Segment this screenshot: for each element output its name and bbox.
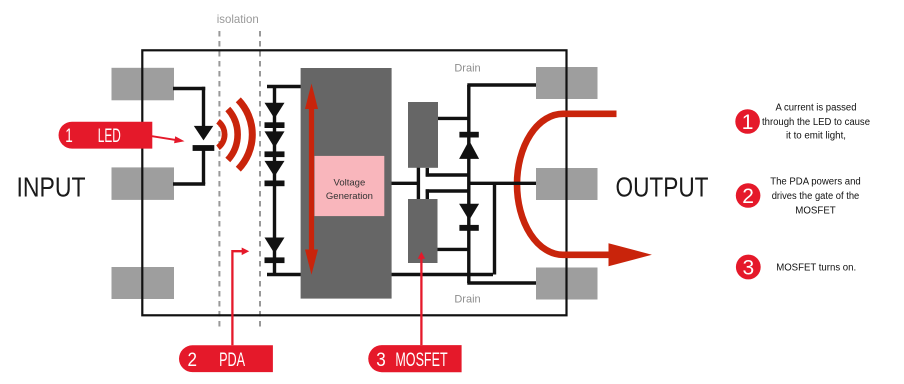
wire down to LED D1	[202, 87, 205, 130]
svg-text:3: 3	[742, 257, 754, 280]
wire PDA string vertical	[273, 85, 276, 275]
photodiode D2	[265, 103, 285, 119]
svg-text:MOSFET: MOSFET	[395, 350, 448, 371]
gate line of Q1/Q2	[417, 167, 420, 200]
svg-text:OUTPUT: OUTPUT	[616, 171, 709, 202]
wire source node to pin 5	[469, 182, 536, 185]
wire Q2 drain to rail	[438, 248, 469, 251]
svg-text:2: 2	[742, 185, 754, 208]
svg-text:INPUT: INPUT	[17, 171, 86, 202]
wire source node drop to PDA cathode wire	[493, 183, 496, 274]
svg-text:A current is passed: A current is passed	[776, 103, 857, 114]
channel plate upper segment (Q1)	[426, 168, 429, 177]
pointer arrow to photodiode array	[232, 251, 242, 345]
wire Q2 source to diode rail	[426, 189, 469, 192]
svg-text:Generation: Generation	[326, 191, 373, 202]
LED D1 cathode bar	[193, 145, 215, 151]
isolation boundary dashed line left	[218, 31, 220, 330]
photodiode D5	[265, 238, 285, 254]
pin 2 (LED cathode)	[112, 167, 175, 200]
wire rail to pin 4	[467, 281, 536, 284]
voltage generation block U1	[301, 68, 392, 299]
svg-text:it to emit light,: it to emit light,	[786, 131, 846, 142]
light emission arc small	[218, 121, 225, 147]
svg-text:isolation: isolation	[217, 12, 259, 26]
wire Q1 source to diode rail	[426, 173, 469, 176]
MOSFET Q1	[408, 102, 438, 168]
MOSFET Q2	[408, 199, 438, 263]
wire rail to pin 6	[467, 83, 536, 86]
body diode D6 (Q1, pointing up)	[459, 132, 478, 138]
pin 1 (LED anode)	[112, 68, 175, 101]
svg-text:drives the gate of the: drives the gate of the	[772, 191, 860, 202]
wire LED D1 cathode down	[202, 150, 205, 184]
svg-text:Drain: Drain	[454, 63, 480, 75]
pointer arrow to MOSFET Q2	[420, 257, 422, 345]
pin 4 (Drain, bottom output)	[536, 268, 598, 300]
callout label 2 PDA	[179, 345, 273, 372]
wire PDA anode into voltage generation block	[267, 85, 302, 88]
svg-text:2: 2	[188, 350, 198, 371]
legend step 3 circle	[736, 255, 761, 280]
LED D1 triangle	[194, 126, 214, 140]
svg-text:MOSFET turns on.: MOSFET turns on.	[776, 263, 856, 274]
pin 3 (NC)	[112, 267, 175, 299]
callout label 1 LED	[59, 122, 153, 149]
svg-text:1: 1	[742, 111, 754, 134]
photodiode D4	[265, 161, 285, 177]
svg-text:LED: LED	[98, 126, 121, 147]
svg-text:through the LED to cause: through the LED to cause	[762, 117, 870, 128]
isolation boundary dashed line right	[259, 31, 261, 330]
package outline	[142, 50, 566, 315]
svg-text:3: 3	[376, 350, 386, 371]
output current flow arrow (red C-curve)	[517, 114, 617, 255]
wire pin 1 to LED anode	[173, 87, 205, 90]
wire Q1 drain to rail	[438, 117, 469, 120]
light emission arc middle	[228, 109, 238, 160]
wire gate feed from voltage generation	[392, 182, 418, 185]
channel plate lower segment (Q2)	[426, 189, 429, 199]
legend step 2 circle	[736, 183, 761, 208]
svg-text:The PDA powers and: The PDA powers and	[770, 177, 861, 188]
svg-text:MOSFET: MOSFET	[795, 205, 836, 216]
pin 6 (Drain, top output)	[536, 67, 598, 99]
body diode rail	[467, 85, 470, 283]
pin 5 (Source, middle output)	[536, 168, 598, 200]
voltage generation inner box	[315, 156, 385, 216]
wire to pin 2	[173, 182, 205, 185]
double-headed energy transfer arrow	[309, 106, 314, 252]
svg-text:Voltage: Voltage	[334, 178, 366, 189]
body diode D7 (Q2, pointing down)	[459, 204, 479, 221]
legend step 1 circle	[735, 109, 760, 134]
svg-text:1: 1	[65, 126, 73, 147]
wire PDA cathode to source node (runs under voltage generation block)	[267, 273, 493, 276]
svg-text:PDA: PDA	[219, 350, 245, 371]
pointer arrow to LED D1	[152, 136, 177, 140]
callout label 3 MOSFET	[368, 345, 461, 372]
svg-text:Drain: Drain	[454, 293, 480, 305]
photodiode D3	[265, 131, 285, 147]
light emission arc large	[238, 100, 252, 169]
